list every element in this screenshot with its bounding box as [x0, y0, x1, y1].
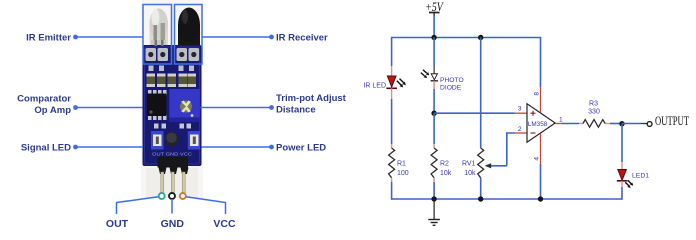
- svg-text:330: 330: [588, 109, 600, 116]
- lead photodiode top: [433, 66, 435, 74]
- lead LED1 cathode: [621, 181, 623, 187]
- svg-text:GND: GND: [161, 218, 185, 230]
- sensor module photo background: [141, 0, 203, 198]
- svg-text:Op Amp: Op Amp: [34, 105, 71, 116]
- node photodiode / R2 / pin3: [431, 111, 436, 116]
- LED1: [617, 170, 634, 189]
- svg-text:Distance: Distance: [276, 105, 316, 116]
- svg-text:100: 100: [397, 170, 409, 177]
- sensor PCB board: [143, 45, 202, 166]
- resistor R2: [431, 148, 437, 178]
- node top rail / +5V: [431, 35, 436, 40]
- wire photodiode branch upper: [433, 38, 435, 67]
- pin stub op-amp pin2: [515, 132, 528, 134]
- op-amp U1 LM358: [527, 104, 555, 142]
- lead R1 top: [391, 144, 393, 148]
- GND pin ring (black): [169, 193, 175, 199]
- wire pin1 to R3: [562, 123, 579, 125]
- callout line Power LED: [201, 145, 274, 150]
- callout line IR Emitter: [73, 35, 142, 40]
- svg-text:Comparator: Comparator: [17, 94, 71, 105]
- OUTPUT terminal circle: [647, 122, 652, 127]
- SMD resistor row: [147, 74, 197, 88]
- svg-text:R2: R2: [440, 161, 449, 168]
- trim-pot: [169, 89, 200, 122]
- svg-text:IR Emitter: IR Emitter: [26, 33, 71, 44]
- photodiode D2: [421, 70, 438, 81]
- svg-text:PHOTO: PHOTO: [440, 77, 464, 84]
- annotation box around IR emitter: [143, 5, 172, 65]
- wire left branch upper: [391, 37, 393, 66]
- solder pads under LEDs: [146, 48, 200, 61]
- header pin GND: [171, 172, 174, 193]
- pin stub op-amp pin4: [540, 134, 542, 165]
- callout line VCC: [186, 197, 226, 214]
- callout line GND: [171, 199, 173, 214]
- wire pin8 vertical: [540, 38, 542, 88]
- node ground rail / RV1: [478, 196, 483, 201]
- svg-text:Power LED: Power LED: [276, 143, 326, 154]
- svg-text:R1: R1: [397, 161, 406, 168]
- wire RV1 bottom: [480, 178, 482, 200]
- svg-text:RV1: RV1: [462, 161, 476, 168]
- mounting hole: [164, 132, 179, 147]
- svg-text:LM358: LM358: [528, 121, 548, 128]
- wire R2 to ground rail: [433, 182, 435, 200]
- svg-text:8: 8: [534, 92, 541, 96]
- callout line Comparator Op Amp: [73, 105, 142, 110]
- small pads above LED chips: [154, 124, 191, 129]
- potentiometer RV1: [478, 148, 484, 178]
- svg-text:Trim-pot Adjust: Trim-pot Adjust: [276, 93, 347, 104]
- node top rail / RV1 branch: [478, 35, 483, 40]
- svg-text:OUT: OUT: [106, 218, 129, 230]
- wire left branch middle: [391, 99, 393, 144]
- resistor R3: [583, 120, 605, 128]
- annotation box around IR receiver: [175, 5, 203, 65]
- IR receiver LED (black dome): [178, 8, 200, 46]
- wire pin3 horizontal: [434, 112, 514, 114]
- lead R3 left: [579, 123, 583, 125]
- svg-text:10k: 10k: [464, 170, 476, 177]
- svg-text:4: 4: [534, 157, 541, 161]
- svg-text:VCC: VCC: [213, 218, 236, 230]
- lead LED1 anode: [621, 162, 623, 170]
- node ground rail / R2: [431, 196, 436, 201]
- wire photodiode to node: [433, 89, 435, 113]
- callout line Signal LED: [73, 145, 143, 150]
- svg-text:10k: 10k: [440, 170, 452, 177]
- wire ground rail: [392, 198, 622, 200]
- node output / LED1: [619, 121, 624, 126]
- svg-text:3: 3: [518, 106, 522, 113]
- wire output node to terminal: [622, 123, 641, 125]
- resistor R1: [389, 148, 395, 178]
- wire top rail: [392, 37, 542, 39]
- comparator op-amp IC on PCB: [147, 90, 167, 120]
- IR emitter LED (clear dome): [149, 9, 168, 47]
- svg-text:IR Receiver: IR Receiver: [276, 33, 328, 44]
- lead R2 bottom: [433, 178, 435, 182]
- svg-text:1: 1: [559, 117, 563, 124]
- pin header body: [158, 157, 189, 175]
- svg-text:2: 2: [518, 126, 522, 133]
- wire LED1 to ground rail: [621, 187, 623, 200]
- pin stub op-amp pin8: [540, 87, 542, 113]
- signal LED chip: [151, 131, 164, 150]
- wire pin4 to ground rail: [540, 164, 542, 200]
- OUT pin ring (teal): [159, 193, 165, 199]
- solder pads row under LED boxes: [149, 66, 195, 72]
- pin stub op-amp pin3: [515, 112, 528, 114]
- wire +5V stub: [433, 13, 435, 16]
- svg-text:IR LED: IR LED: [363, 83, 386, 90]
- callout line IR Receiver: [202, 35, 274, 40]
- lead photodiode bottom: [433, 81, 435, 89]
- svg-text:R3: R3: [589, 101, 598, 108]
- svg-text:LED1: LED1: [632, 173, 649, 180]
- wire RV1 branch upper: [480, 38, 482, 149]
- +5V terminal bar: [429, 12, 440, 14]
- lead R3 right: [605, 123, 610, 125]
- callout line OUT: [117, 197, 159, 214]
- lead R2 top: [433, 144, 435, 148]
- lead IR LED anode: [391, 66, 393, 76]
- RV1 wiper arrow: [485, 163, 507, 168]
- node ground rail / pin4: [538, 196, 543, 201]
- IR LED D1: [386, 76, 406, 88]
- wire LED1 branch: [621, 124, 623, 163]
- VCC pin ring (orange): [180, 193, 186, 199]
- ground symbol: [428, 199, 440, 225]
- wire R2 branch: [433, 113, 435, 144]
- wire R3 to output node: [610, 123, 622, 125]
- wire left branch lower: [391, 182, 393, 200]
- lead IR LED cathode: [391, 88, 393, 99]
- wire wiper to pin2: [507, 133, 515, 166]
- header pin VCC: [182, 172, 185, 193]
- svg-text:Signal LED: Signal LED: [21, 143, 71, 154]
- callout line Trim-pot Adjust Distance: [200, 105, 274, 110]
- lead R1 bottom: [391, 178, 393, 182]
- pin stub op-amp pin1: [555, 123, 562, 125]
- header pin OUT: [161, 172, 164, 193]
- svg-text:DIODE: DIODE: [440, 85, 462, 92]
- svg-text:OUT GND VCC: OUT GND VCC: [152, 152, 193, 157]
- svg-text:OUTPUT: OUTPUT: [655, 113, 689, 128]
- power LED chip: [188, 131, 200, 150]
